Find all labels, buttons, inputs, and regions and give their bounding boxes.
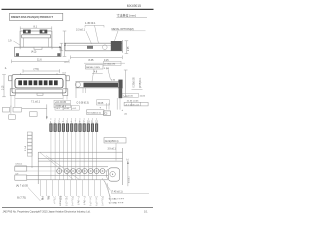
chain stack bbox=[27, 132, 32, 156]
hole circles bbox=[57, 169, 105, 174]
dim 11.6 bbox=[12, 60, 70, 64]
svg-text:DM3BT-DSF-PEJS(22) PRODUCT: DM3BT-DSF-PEJS(22) PRODUCT bbox=[11, 15, 53, 19]
center line bbox=[27, 170, 108, 172]
svg-text:JAE PN5 No. Proprietary Copyr: JAE PN5 No. Proprietary Copyright© 2015 … bbox=[3, 211, 91, 214]
left vert dim bbox=[2, 75, 6, 97]
leader 5M bbox=[108, 70, 111, 80]
boxed pm bbox=[97, 100, 110, 105]
svg-text:C 0.08 (0.3): C 0.08 (0.3) bbox=[77, 102, 89, 104]
header rule bbox=[2, 8, 154, 10]
0.9 dim line bbox=[15, 165, 27, 167]
divider bbox=[10, 106, 12, 114]
svg-text:±0.05: ±0.05 bbox=[140, 96, 146, 98]
svg-text:寸法単位 [mm]: 寸法単位 [mm] bbox=[117, 13, 137, 18]
svg-text:±0.05: ±0.05 bbox=[64, 108, 70, 110]
svg-text:(A) 7 ±0.05: (A) 7 ±0.05 bbox=[16, 184, 28, 187]
svg-text:3.15: 3.15 bbox=[2, 85, 4, 90]
tol box right b bbox=[54, 104, 71, 108]
left vert line bbox=[75, 82, 77, 98]
svg-text:0.5±0.1: 0.5±0.1 bbox=[129, 175, 131, 183]
tick bar bbox=[132, 89, 143, 91]
left ear bbox=[9, 76, 12, 81]
leader verts bbox=[106, 103, 108, 110]
title box bbox=[10, 13, 63, 20]
dim 7.1 bbox=[15, 97, 63, 99]
tab left bbox=[23, 30, 31, 34]
profile detail circle bbox=[103, 45, 108, 50]
line to arrow bbox=[22, 107, 47, 109]
svg-text:0.15: 0.15 bbox=[104, 60, 109, 62]
arc detail bbox=[106, 169, 107, 179]
tab notches bbox=[26, 31, 28, 33]
box 1.06 1.09 bbox=[104, 61, 122, 65]
leader to profile bbox=[92, 69, 94, 81]
svg-text:B (7.75): B (7.75) bbox=[17, 196, 26, 199]
right tol box chain bbox=[124, 102, 148, 106]
svg-text:(+): (+) bbox=[126, 159, 129, 161]
under-band ticks bbox=[82, 88, 84, 93]
leg extension lines bbox=[11, 96, 67, 108]
right leg bbox=[63, 89, 68, 96]
right dim 2.35 bbox=[125, 41, 129, 54]
right end circle bbox=[110, 172, 115, 177]
bar extension lines bbox=[116, 98, 118, 110]
svg-text:8.1: 8.1 bbox=[34, 25, 38, 28]
svg-text:METAL OPTION(M): METAL OPTION(M) bbox=[112, 28, 134, 31]
svg-text:0.9±0.1: 0.9±0.1 bbox=[16, 164, 24, 166]
svg-text:MX49015: MX49015 bbox=[127, 4, 141, 8]
slot bbox=[15, 78, 63, 88]
profile mid feature bbox=[87, 46, 93, 49]
No1 label box bbox=[87, 110, 105, 115]
tab right bbox=[40, 30, 48, 34]
pad numbers bbox=[50, 121, 99, 124]
right vert dim bbox=[63, 31, 67, 57]
svg-text:+0.1 ±0.05: +0.1 ±0.05 bbox=[55, 102, 67, 104]
bl diagonal bbox=[28, 188, 41, 202]
pad descenders bbox=[51, 131, 97, 179]
tol box right a bbox=[54, 100, 71, 104]
datum box B bbox=[13, 107, 21, 112]
raised block bbox=[111, 41, 122, 51]
svg-text:1.15±0.05: 1.15±0.05 bbox=[123, 96, 133, 98]
No9 label box bbox=[104, 138, 126, 144]
dim (7.5) bbox=[23, 69, 60, 73]
svg-text:1.45: 1.45 bbox=[60, 45, 62, 50]
bottom center bump bbox=[37, 93, 43, 95]
datum box A bbox=[3, 107, 10, 112]
svg-text:0.7×8: 0.7×8 bbox=[24, 145, 27, 151]
svg-text:1.45 ±0.1: 1.45 ±0.1 bbox=[85, 22, 96, 25]
svg-text:(4.2): (4.2) bbox=[31, 51, 36, 54]
svg-text:0.35±0.05: 0.35±0.05 bbox=[134, 77, 136, 88]
contacts bbox=[18, 80, 57, 85]
right fan bbox=[102, 178, 111, 202]
svg-text:METAL CONN: METAL CONN bbox=[86, 66, 100, 69]
box C3 bbox=[104, 111, 111, 116]
svg-text:(7.45 ±0.1): (7.45 ±0.1) bbox=[111, 191, 123, 194]
pad number ticks bbox=[51, 118, 97, 120]
side profile bbox=[65, 43, 122, 51]
slot from top bbox=[22, 35, 51, 38]
boxed note bottom bbox=[122, 93, 138, 97]
bottom dim line bbox=[71, 56, 123, 60]
chain vert bbox=[31, 132, 33, 168]
right end pad bbox=[108, 168, 119, 181]
svg-text:No.9(A5±0.1): No.9(A5±0.1) bbox=[105, 140, 119, 143]
svg-text:(1.06)(1.09): (1.06)(1.09) bbox=[104, 64, 115, 66]
second dim line bbox=[84, 62, 125, 64]
flange bbox=[15, 47, 61, 56]
chain boxes bbox=[55, 106, 79, 111]
svg-text:+0.1 ±0.05 +0.1: +0.1 ±0.05 +0.1 bbox=[125, 104, 140, 106]
body ticks bbox=[20, 73, 22, 75]
top view inner verticals bbox=[23, 38, 48, 47]
top view body bbox=[20, 31, 52, 47]
hatch band bbox=[84, 83, 119, 87]
right dim vert bbox=[124, 70, 128, 97]
svg-text:NO.1(A5±0.1): NO.1(A5±0.1) bbox=[87, 111, 101, 114]
svg-text:※2 GND ④⑦⑧: ※2 GND ④⑦⑧ bbox=[109, 202, 124, 205]
right ear bbox=[66, 76, 69, 81]
signal labels bbox=[41, 196, 105, 207]
diagonal leaders bbox=[40, 153, 80, 181]
svg-text:5 (M): 5 (M) bbox=[104, 68, 109, 70]
svg-text:3.3 ±0.1: 3.3 ±0.1 bbox=[76, 28, 86, 31]
slot lower line bbox=[16, 89, 62, 91]
svg-text:2.35: 2.35 bbox=[128, 46, 130, 51]
svg-text:7.1 ±0.1: 7.1 ±0.1 bbox=[31, 101, 41, 104]
svg-text:8.35: 8.35 bbox=[89, 59, 94, 62]
front body bbox=[12, 75, 66, 93]
left vert dim 1.45 bbox=[60, 43, 63, 51]
left detail circle bbox=[75, 82, 80, 87]
pad row bbox=[50, 124, 98, 132]
flange details bbox=[34, 47, 42, 49]
hole centers bbox=[59, 170, 103, 171]
outline band bbox=[27, 148, 123, 185]
flange step lines bbox=[19, 47, 21, 49]
left pads bbox=[15, 166, 27, 171]
svg-text:±0.05: ±0.05 bbox=[98, 103, 104, 105]
section profile bbox=[76, 82, 122, 88]
svg-text:1/1: 1/1 bbox=[144, 211, 148, 214]
svg-text:(7.5): (7.5) bbox=[34, 68, 39, 71]
left leg bbox=[10, 89, 15, 96]
vertical bar bbox=[119, 88, 123, 98]
profile inner bbox=[67, 44, 112, 46]
svg-text:3.9 ±0.1: 3.9 ±0.1 bbox=[108, 148, 117, 150]
flange corner marks bbox=[16, 53, 19, 56]
svg-text:2-: 2- bbox=[5, 68, 7, 70]
svg-text:11.6: 11.6 bbox=[37, 59, 42, 62]
bottom edge bbox=[15, 92, 63, 94]
No9 descender bbox=[115, 143, 117, 161]
arrow vertical bbox=[46, 104, 48, 118]
footer rule bbox=[2, 207, 153, 209]
svg-text:※1 DAT2 ①③④: ※1 DAT2 ①③④ bbox=[109, 198, 125, 201]
mid box bbox=[30, 112, 38, 117]
right end tick bbox=[121, 40, 123, 52]
lower descenders bbox=[41, 180, 101, 196]
dim 8.1 line bbox=[20, 26, 52, 30]
leader 1.9 bbox=[14, 41, 21, 45]
small box below bbox=[9, 115, 16, 120]
metal connection box bbox=[86, 65, 104, 69]
svg-text:(0.55)±0.1: (0.55)±0.1 bbox=[140, 77, 142, 88]
right end block bbox=[118, 80, 122, 89]
